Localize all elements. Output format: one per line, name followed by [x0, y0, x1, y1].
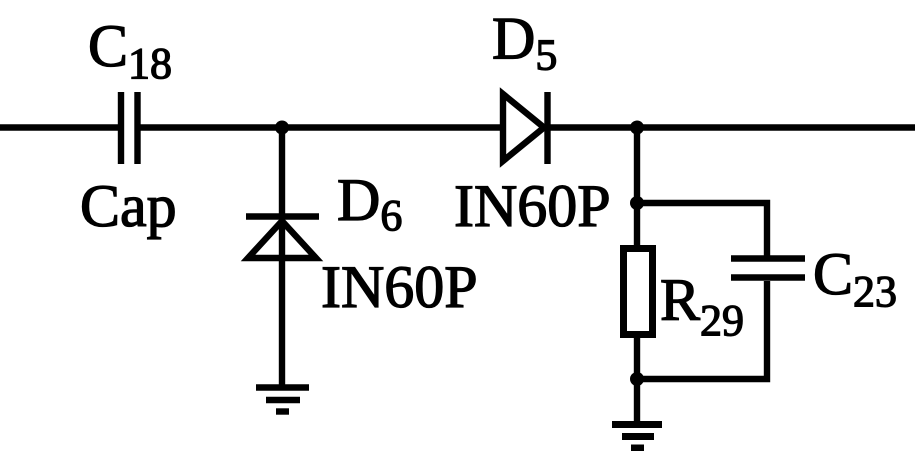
svg-text:IN60P: IN60P	[321, 254, 478, 320]
svg-text:IN60P: IN60P	[454, 173, 611, 239]
svg-text:Cap: Cap	[80, 173, 177, 239]
